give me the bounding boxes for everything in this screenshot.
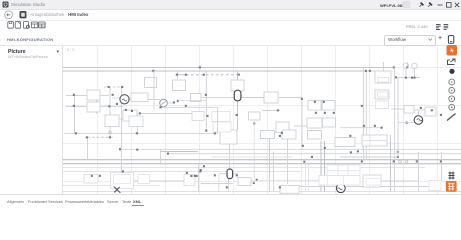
block B20 (425, 107, 436, 116)
node (416, 160, 418, 162)
title bar pin icon 2 (429, 3, 432, 6)
node (139, 112, 141, 114)
node (324, 112, 326, 114)
wire (308, 162, 310, 192)
node (357, 150, 359, 152)
wire (340, 127, 363, 129)
node (365, 70, 367, 72)
block B8b (192, 112, 204, 121)
wire (298, 186, 336, 188)
wire (407, 62, 409, 68)
node (236, 174, 238, 176)
block B7 (173, 80, 186, 91)
node (203, 74, 205, 76)
wire (269, 131, 271, 192)
node (226, 186, 228, 188)
tool: grid (449, 172, 455, 180)
wire (340, 156, 397, 158)
block B19 (404, 106, 414, 114)
wire (365, 71, 367, 160)
block B18b (376, 101, 389, 109)
wire (112, 97, 119, 99)
left panel (0, 46, 63, 194)
wire (229, 144, 231, 169)
wire (363, 127, 381, 129)
tool: export (448, 59, 456, 65)
wire: bottom pipe 1 (120, 148, 461, 150)
block B27 (84, 175, 98, 184)
node (200, 169, 202, 171)
block B24 (308, 131, 322, 140)
node (361, 105, 363, 107)
tool: pen (447, 114, 456, 121)
wire (87, 137, 89, 160)
wire: dashed link (186, 74, 238, 76)
node (405, 77, 407, 79)
block B4b (129, 116, 143, 127)
block B25 (335, 138, 355, 147)
wire (346, 186, 430, 188)
wire (397, 78, 399, 157)
node (177, 100, 179, 102)
table T1 (327, 165, 360, 176)
block B22 (261, 131, 275, 139)
valve V1 (234, 90, 241, 101)
node (253, 122, 255, 124)
block B17 (375, 71, 391, 83)
block B18 inner (378, 92, 389, 97)
node (152, 70, 154, 72)
node (185, 74, 187, 76)
node (185, 105, 187, 107)
node (406, 122, 408, 124)
node (214, 132, 216, 134)
close button (455, 3, 459, 7)
wire (140, 113, 192, 115)
node (108, 86, 110, 88)
node (324, 147, 326, 149)
tool: circle 1 (449, 79, 455, 85)
wire (391, 108, 404, 110)
wire (398, 122, 414, 124)
node (91, 175, 93, 177)
wire (287, 139, 289, 184)
node (199, 170, 201, 172)
block B2 (87, 102, 100, 112)
wire (218, 174, 220, 192)
wire (64, 132, 218, 134)
node (206, 115, 208, 117)
wire (110, 106, 123, 108)
wire (153, 71, 155, 110)
wire (363, 68, 365, 161)
node (121, 86, 123, 88)
wire (109, 87, 111, 137)
wire (121, 87, 123, 186)
node (119, 148, 121, 150)
node (281, 132, 283, 134)
wire: main pipe B (63, 70, 366, 72)
wire (178, 100, 206, 102)
block B21 (220, 130, 237, 144)
wire (251, 180, 257, 182)
wire (104, 86, 122, 88)
wire (167, 102, 173, 104)
node (406, 66, 408, 68)
wire (390, 135, 392, 192)
block B13 (308, 101, 321, 111)
node (205, 94, 207, 96)
wire (394, 135, 396, 192)
wire (205, 71, 207, 131)
block B12 (276, 122, 289, 133)
block B26 (362, 135, 387, 146)
wire (100, 106, 109, 108)
block B18 (375, 90, 389, 99)
block B30 (238, 178, 251, 186)
wire: bottom stub (63, 185, 160, 187)
node (122, 170, 124, 172)
wire (177, 71, 179, 79)
device icon (448, 36, 453, 44)
wire (201, 183, 233, 185)
wire: bottom pipe 3 (63, 159, 461, 161)
node (361, 160, 363, 162)
node (194, 175, 196, 177)
node ring (399, 160, 402, 163)
platform deck (319, 176, 360, 186)
wire (418, 152, 420, 192)
node (73, 94, 75, 96)
node (381, 127, 383, 129)
node (397, 156, 399, 158)
node (186, 172, 188, 174)
back circle button (5, 11, 13, 19)
wire (74, 95, 76, 133)
node (301, 98, 303, 100)
node (203, 165, 205, 167)
wire (417, 111, 419, 116)
node (159, 106, 161, 108)
toolbar icon: table 1 (31, 22, 38, 28)
window title bar (0, 0, 461, 10)
wire: main pipe A (63, 67, 394, 69)
icon: compare (436, 25, 441, 30)
wire (198, 164, 200, 192)
node (420, 107, 422, 109)
node (73, 105, 75, 107)
tool: circle 2 (449, 88, 455, 94)
canvas grid (63, 46, 461, 194)
node (109, 136, 111, 138)
node (205, 130, 207, 132)
node (311, 156, 313, 158)
node (302, 145, 304, 147)
version label (406, 24, 428, 29)
wire (161, 106, 218, 108)
block B15 (307, 118, 322, 128)
node (116, 103, 118, 105)
node (238, 74, 240, 76)
block B9 (231, 80, 244, 91)
breadcrumb bar (0, 10, 461, 21)
wire (241, 97, 264, 99)
wire (161, 151, 198, 153)
wire (237, 101, 239, 130)
breadcrumb app icon (20, 11, 27, 18)
node (397, 151, 399, 153)
app icon (title bar) (3, 2, 9, 8)
node (363, 125, 365, 127)
node (395, 76, 397, 78)
node (199, 66, 201, 68)
block B5 (131, 93, 148, 102)
wire (301, 99, 303, 146)
wire: bottom pipe 1b (168, 153, 461, 155)
wire (96, 100, 98, 114)
wire (88, 136, 114, 138)
node (279, 186, 281, 188)
wire (394, 68, 396, 136)
block B4 (123, 110, 137, 121)
pump symbol M1 (120, 95, 129, 104)
wire (66, 95, 87, 97)
wire (364, 70, 375, 72)
node (136, 132, 138, 134)
block B26 inner line (362, 135, 387, 146)
wire: top link row (177, 74, 186, 76)
node (440, 114, 442, 116)
block B33 (429, 181, 441, 191)
node ring (405, 160, 408, 163)
node (86, 136, 88, 138)
node (349, 135, 351, 137)
canvas origin label (67, 48, 74, 52)
icon: layers (444, 25, 449, 30)
block B32 inner (366, 179, 381, 186)
pump symbol M2 (414, 116, 423, 125)
node (108, 105, 110, 107)
section header bar (0, 33, 461, 46)
block B36 (213, 122, 231, 132)
wire: bottom pipe 5 (63, 167, 425, 169)
node (256, 179, 258, 181)
wire (233, 173, 238, 175)
sensor lollipop 2 (412, 63, 418, 69)
sensor lollipop 1 (403, 63, 409, 69)
wire (237, 71, 239, 90)
block B16 (323, 118, 336, 127)
wire (66, 106, 87, 108)
workflow dropdown (384, 35, 436, 46)
wire (278, 97, 302, 99)
wire (324, 141, 326, 192)
node (314, 101, 316, 103)
node (236, 114, 238, 116)
wire (396, 77, 420, 79)
wire (318, 109, 332, 111)
wire: canvas bottom line (63, 191, 461, 193)
node (279, 135, 281, 137)
node (176, 74, 178, 76)
block B35 (212, 112, 230, 122)
block B29b (138, 175, 150, 184)
wire: bottom pipe 4 (63, 163, 461, 165)
node (369, 70, 371, 72)
wire (441, 152, 443, 181)
wire (305, 162, 307, 192)
node (393, 160, 395, 162)
wire (320, 141, 322, 192)
node (136, 149, 138, 151)
block B32 (363, 175, 381, 187)
toolbar icon: save (8, 22, 14, 29)
block B10 (249, 112, 261, 120)
left rail strip (0, 46, 2, 194)
node (431, 109, 433, 111)
title bar badge box (403, 2, 410, 8)
toolbar icon: table 2 (39, 22, 46, 28)
node (125, 109, 127, 111)
dropdown chevron (429, 39, 433, 41)
wire (201, 96, 233, 98)
node (131, 110, 133, 112)
block B8 (191, 94, 202, 102)
node (277, 109, 279, 111)
node (99, 175, 101, 177)
pump symbol M3 (336, 184, 345, 193)
crossed mark X1 (114, 187, 121, 193)
minimize button (438, 4, 443, 6)
wire (129, 99, 161, 101)
node (190, 175, 192, 177)
node (374, 125, 376, 127)
wire (117, 118, 126, 120)
block B29 (184, 175, 195, 186)
node ring (109, 131, 112, 134)
tool: circle 4 (449, 104, 455, 110)
wire (253, 120, 255, 183)
node (393, 66, 395, 68)
valve V2 (227, 169, 233, 179)
wire (262, 110, 280, 112)
tool: record (449, 69, 454, 74)
node (112, 94, 114, 96)
wire (228, 179, 230, 192)
block B28 (111, 173, 134, 189)
node (333, 112, 335, 114)
wire (383, 62, 385, 71)
wire (381, 180, 418, 182)
wire (134, 180, 185, 182)
node (196, 175, 198, 177)
block B31 (280, 186, 299, 194)
wire (360, 156, 390, 158)
node (167, 153, 169, 155)
wire (160, 149, 162, 164)
wire (219, 173, 227, 175)
node (303, 161, 305, 163)
wire (414, 109, 425, 111)
bottom tab bar (0, 194, 461, 209)
title bar pin icon 1 (421, 3, 424, 6)
block B23 (282, 130, 296, 139)
block B3 (105, 115, 119, 127)
node (413, 77, 415, 79)
node (411, 77, 413, 79)
wire (257, 180, 319, 182)
block B1 (87, 90, 100, 100)
wire (273, 152, 275, 192)
wire (137, 113, 139, 133)
node (173, 101, 175, 103)
block B11 (264, 92, 278, 103)
wire (100, 95, 109, 97)
block B17 inner (378, 78, 389, 83)
node (440, 160, 442, 162)
wire: bottom pipe 6 (63, 171, 300, 173)
toolbar icon: file search (23, 22, 28, 29)
node (315, 112, 317, 114)
tool: select (orange) (447, 45, 458, 56)
toolbar icon: file (15, 22, 20, 29)
block B6 (145, 78, 157, 88)
sensor symbol S1 (160, 99, 168, 107)
wire (212, 156, 292, 158)
block B14 (322, 101, 335, 111)
node (253, 182, 255, 184)
tool: circle 3 (449, 96, 455, 102)
node (75, 132, 77, 134)
wire (217, 107, 219, 133)
tool: grid orange (446, 181, 457, 192)
maximize button (447, 3, 452, 8)
wire (294, 125, 310, 127)
node (214, 174, 216, 176)
node (350, 151, 352, 153)
node (323, 101, 325, 103)
